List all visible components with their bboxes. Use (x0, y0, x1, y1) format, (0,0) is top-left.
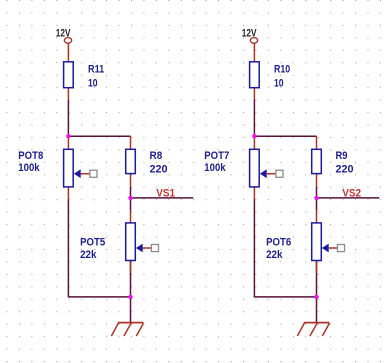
svg-text:VS1: VS1 (156, 187, 175, 199)
svg-text:POT8: POT8 (18, 150, 43, 162)
svg-text:R8: R8 (150, 150, 163, 162)
svg-text:100k: 100k (18, 162, 40, 174)
svg-text:220: 220 (336, 164, 354, 176)
svg-text:POT6: POT6 (266, 237, 291, 249)
svg-text:10: 10 (88, 78, 98, 90)
svg-text:VS2: VS2 (342, 187, 361, 199)
svg-text:220: 220 (150, 164, 168, 176)
svg-text:22k: 22k (80, 249, 97, 261)
svg-text:10: 10 (274, 78, 284, 90)
svg-text:R9: R9 (336, 150, 348, 162)
svg-text:POT7: POT7 (204, 150, 229, 162)
svg-text:R11: R11 (88, 64, 104, 76)
svg-text:POT5: POT5 (80, 237, 105, 249)
svg-text:100k: 100k (204, 162, 226, 174)
svg-text:12V: 12V (242, 27, 257, 39)
svg-text:22k: 22k (266, 249, 283, 261)
svg-text:R10: R10 (274, 64, 290, 76)
svg-text:12V: 12V (56, 27, 71, 39)
